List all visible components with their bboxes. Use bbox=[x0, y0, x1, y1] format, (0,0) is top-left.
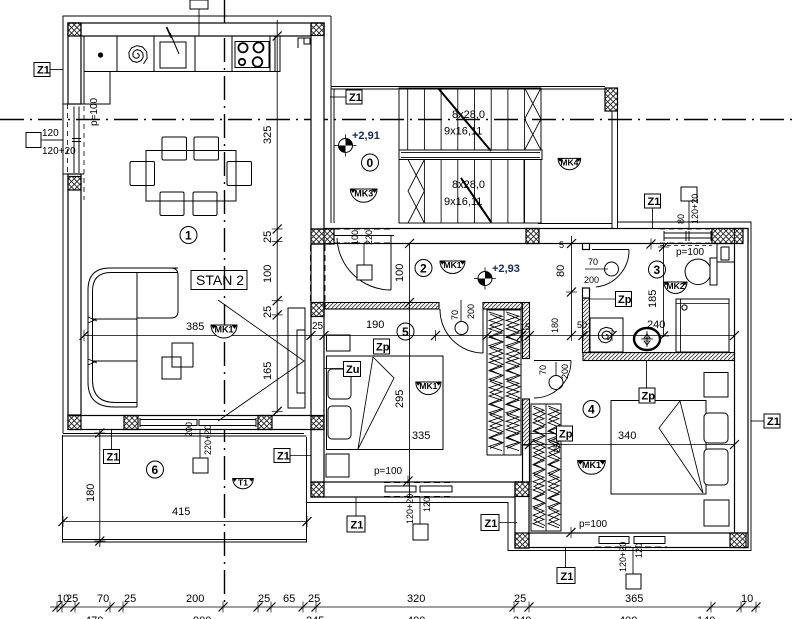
room number 1 bbox=[180, 227, 197, 244]
nightstand room5 top bbox=[327, 335, 351, 351]
toilet bbox=[685, 259, 711, 285]
wall left exterior lower bbox=[68, 174, 81, 415]
svg-text:0: 0 bbox=[367, 156, 374, 170]
armchair squares bbox=[162, 357, 181, 379]
svg-text:Z1: Z1 bbox=[37, 65, 50, 77]
svg-text:Zp: Zp bbox=[618, 294, 632, 306]
kitchen stove bbox=[235, 42, 269, 68]
room number 0 bbox=[362, 154, 379, 171]
stair treads upper flight bbox=[408, 88, 508, 150]
Zp label room4 top bbox=[639, 361, 655, 403]
svg-text:100: 100 bbox=[262, 265, 274, 283]
axis horizontal A bbox=[0, 119, 793, 121]
svg-text:180: 180 bbox=[550, 318, 560, 333]
bathroom west partition upper stub bbox=[583, 244, 590, 250]
svg-text:MK1: MK1 bbox=[444, 260, 462, 270]
Z1 label terrace top bbox=[104, 430, 120, 464]
wall top of left building bbox=[68, 23, 324, 36]
dim terrace 180 vertical bbox=[99, 430, 101, 547]
svg-text:p=100: p=100 bbox=[374, 466, 403, 477]
wardrobe room5 bbox=[487, 310, 521, 455]
svg-text:6: 6 bbox=[152, 463, 159, 477]
stair up-line lower flight bbox=[461, 178, 491, 222]
svg-text:335: 335 bbox=[412, 430, 430, 442]
svg-text:180: 180 bbox=[85, 484, 97, 502]
pier hatch: left bldg SE corner bbox=[311, 416, 324, 430]
svg-text:25: 25 bbox=[514, 593, 526, 605]
svg-text:9x16,11: 9x16,11 bbox=[444, 126, 482, 138]
Z1 label right of left bldg bbox=[330, 90, 362, 104]
bathroom window (top wall) bbox=[660, 229, 712, 246]
partition room5/room4 upper (hatched) bbox=[523, 303, 530, 359]
svg-text:200: 200 bbox=[466, 304, 476, 319]
svg-text:2: 2 bbox=[420, 262, 427, 276]
Zp label room5 bbox=[374, 339, 390, 354]
svg-text:80: 80 bbox=[555, 265, 567, 277]
wall bottom of room 5 bbox=[311, 482, 529, 497]
dim room4 340 horizontal y=444.5 bbox=[523, 444, 735, 446]
door mark bath: circle + text bbox=[605, 262, 619, 276]
door mark room4: circle + rotated text bbox=[549, 376, 563, 390]
corner pier hatch: left bldg NW bbox=[68, 23, 81, 36]
dim bath 185 vertical x=663.5 bbox=[663, 244, 665, 337]
Zp label room4 left bbox=[530, 426, 573, 441]
level mark +2,91 bbox=[335, 135, 357, 157]
svg-text:MK4: MK4 bbox=[560, 157, 578, 167]
MK3 symbol bbox=[350, 189, 377, 203]
room number 3 bbox=[649, 261, 666, 278]
svg-text:385: 385 bbox=[186, 321, 204, 333]
svg-text:140: 140 bbox=[697, 615, 715, 619]
partition room5/room4 lower (hatched) bbox=[523, 399, 530, 445]
svg-text:+2,91: +2,91 bbox=[352, 130, 380, 142]
pier hatch: bottom wall right of door bbox=[258, 416, 272, 430]
svg-text:25: 25 bbox=[124, 593, 136, 605]
door hall to bathroom: leaf and swing bbox=[592, 250, 629, 288]
duvet fold room5 bbox=[358, 357, 394, 449]
svg-text:70: 70 bbox=[97, 593, 109, 605]
svg-text:15: 15 bbox=[520, 322, 530, 332]
svg-text:365: 365 bbox=[625, 593, 643, 605]
svg-text:245: 245 bbox=[306, 615, 324, 619]
dim hall 100 vertical x=409.5 bbox=[409, 244, 411, 498]
kitchen cutting board bbox=[160, 42, 186, 68]
Zp label bathroom bbox=[590, 292, 632, 307]
dim terrace 415 horizontal bbox=[63, 521, 307, 523]
bathroom south partition (hatched) bbox=[583, 353, 735, 361]
svg-text:Z1: Z1 bbox=[648, 196, 661, 208]
sofa outline bbox=[88, 268, 178, 407]
TV sideboard bbox=[288, 308, 305, 408]
MK1 symbol hall bbox=[440, 260, 465, 274]
svg-text:165: 165 bbox=[262, 362, 274, 380]
svg-text:Zp: Zp bbox=[559, 429, 573, 441]
T1 symbol terrace bbox=[233, 478, 254, 489]
bathroom west partition hatched bbox=[583, 298, 590, 353]
svg-text:200: 200 bbox=[184, 422, 194, 437]
stair rail column lower right bbox=[524, 160, 541, 224]
svg-text:p=100: p=100 bbox=[89, 97, 100, 126]
terrace sliding door (bottom wall left bldg) bbox=[138, 416, 258, 430]
top edge leader box bbox=[190, 0, 208, 9]
svg-text:Zu: Zu bbox=[346, 364, 359, 376]
svg-text:Z1: Z1 bbox=[107, 452, 120, 464]
svg-text:Z1: Z1 bbox=[277, 451, 290, 463]
axis vertical B bbox=[224, 0, 226, 608]
pier hatch: wall D at hall south bbox=[311, 303, 324, 317]
stair mid landing bar bbox=[399, 150, 542, 160]
svg-text:5: 5 bbox=[559, 240, 564, 250]
dining chairs bbox=[162, 137, 187, 160]
svg-text:120+20: 120+20 bbox=[618, 542, 628, 572]
svg-text:4: 4 bbox=[588, 403, 595, 417]
svg-text:Z1: Z1 bbox=[485, 518, 498, 530]
nightstand room4 bottom bbox=[704, 500, 729, 526]
svg-text:120: 120 bbox=[422, 497, 432, 512]
stair up-line upper flight bbox=[438, 88, 491, 151]
entry door leaf and swing bbox=[337, 236, 391, 290]
window mark square left bbox=[26, 133, 41, 148]
svg-text:5: 5 bbox=[402, 325, 409, 339]
kitchen corner mark bbox=[298, 38, 310, 48]
Z1 label below room4 bbox=[557, 548, 575, 584]
pier hatch: top wall mid (x526) bbox=[526, 229, 539, 244]
kitchen counter top run bbox=[84, 36, 280, 72]
svg-text:Z1: Z1 bbox=[767, 416, 780, 428]
svg-text:25: 25 bbox=[262, 231, 274, 243]
dining table bbox=[146, 151, 236, 202]
duvet fold room4 bbox=[659, 401, 703, 493]
wall bottom of room 4 bbox=[529, 533, 748, 548]
pier hatch: stair pillar bbox=[605, 88, 618, 111]
pier hatch: SE corner of building bbox=[730, 533, 746, 548]
svg-text:Zp: Zp bbox=[376, 342, 390, 354]
kitchen sink spiral bbox=[129, 46, 147, 64]
svg-text:Z1: Z1 bbox=[561, 571, 574, 583]
svg-text:8x28,0: 8x28,0 bbox=[452, 179, 485, 191]
pier hatch: left bldg SW bbox=[68, 416, 81, 430]
svg-text:320: 320 bbox=[407, 593, 425, 605]
pier hatch: top wall NE corner bbox=[712, 229, 743, 244]
svg-text:Z1: Z1 bbox=[349, 92, 362, 104]
svg-text:120+20: 120+20 bbox=[690, 194, 700, 224]
svg-text:240: 240 bbox=[513, 615, 531, 619]
svg-text:3: 3 bbox=[654, 263, 661, 277]
wall left exterior upper bbox=[68, 23, 81, 104]
svg-text:10: 10 bbox=[741, 593, 753, 605]
MK2 symbol bath bbox=[664, 281, 687, 294]
stair treads lower flight bbox=[424, 160, 524, 224]
svg-text:120: 120 bbox=[634, 543, 644, 558]
wardrobe room4 bbox=[531, 404, 561, 531]
entry door opening (dashed) bbox=[334, 229, 394, 243]
svg-text:9x16,11: 9x16,11 bbox=[444, 196, 482, 208]
svg-text:25: 25 bbox=[258, 593, 270, 605]
Z1 label far right bbox=[751, 414, 780, 428]
room number 2 bbox=[415, 260, 432, 277]
wall stub between room5 and room4 bottoms bbox=[515, 482, 529, 548]
MK4 symbol bbox=[558, 157, 581, 169]
Z1 label top right bbox=[645, 194, 661, 229]
pier hatch: x515 wall bottom bbox=[515, 533, 529, 548]
svg-text:MK3: MK3 bbox=[354, 189, 373, 199]
svg-text:8x28,0: 8x28,0 bbox=[452, 109, 485, 121]
terrace outline bbox=[63, 435, 308, 542]
window left wall (120+20) bbox=[63, 104, 84, 200]
wall right of left building lower bbox=[311, 430, 324, 483]
pier hatch: left wall at window bbox=[68, 177, 81, 191]
building outline thin, left block bbox=[63, 16, 331, 434]
svg-text:MK1: MK1 bbox=[582, 460, 601, 470]
washing machine bbox=[590, 318, 623, 352]
svg-text:MK2: MK2 bbox=[667, 281, 685, 291]
svg-text:65: 65 bbox=[283, 593, 295, 605]
entry door mark square bbox=[357, 265, 372, 280]
svg-text:25: 25 bbox=[262, 306, 274, 318]
door to room4: leaf and swing bbox=[534, 361, 571, 399]
stairwell east wall bbox=[612, 111, 618, 229]
svg-text:415: 415 bbox=[172, 506, 190, 518]
svg-text:220: 220 bbox=[364, 230, 374, 245]
pier hatch: wall D room5 SW bbox=[311, 482, 324, 497]
wall below stairs / top wall of right wing bbox=[324, 229, 748, 244]
stair rail column upper right bbox=[525, 88, 541, 150]
svg-text:190: 190 bbox=[366, 319, 384, 331]
svg-text:p=100: p=100 bbox=[579, 519, 608, 530]
window mark square bath bbox=[681, 187, 697, 201]
Zu label room5 bbox=[324, 362, 361, 377]
room4 south window bbox=[595, 533, 667, 547]
svg-text:25: 25 bbox=[66, 593, 78, 605]
dim line A across plan y=335.5 bbox=[84, 335, 735, 337]
svg-text:340: 340 bbox=[618, 430, 636, 442]
svg-text:25: 25 bbox=[312, 321, 324, 332]
svg-text:Z1: Z1 bbox=[351, 520, 364, 532]
window mark square room5 bbox=[413, 524, 428, 540]
staircase box bbox=[399, 88, 541, 223]
room number 5 bbox=[397, 323, 414, 340]
svg-text:50: 50 bbox=[577, 320, 587, 330]
svg-text:70: 70 bbox=[588, 257, 598, 267]
MK1 symbol room4 bbox=[578, 460, 606, 474]
svg-text:MK1: MK1 bbox=[215, 325, 234, 335]
svg-text:400: 400 bbox=[619, 615, 637, 619]
svg-text:470: 470 bbox=[85, 615, 103, 619]
STAN 2 box bbox=[191, 271, 247, 290]
svg-text:240: 240 bbox=[647, 319, 665, 331]
pier hatch: bottom wall mid bbox=[124, 416, 138, 430]
wall right exterior of right wing bbox=[735, 229, 749, 548]
svg-text:200: 200 bbox=[560, 364, 570, 379]
svg-text:100: 100 bbox=[350, 230, 360, 245]
kitchen dot burner bbox=[98, 52, 103, 57]
svg-text:p=100: p=100 bbox=[676, 247, 705, 258]
stair rail column lower left bbox=[408, 160, 424, 224]
svg-text:185: 185 bbox=[647, 290, 659, 308]
bottom dimension chain bbox=[50, 606, 760, 608]
svg-text:Zp: Zp bbox=[642, 391, 656, 403]
Z1 label left wall bbox=[34, 63, 63, 77]
svg-text:MK1: MK1 bbox=[419, 381, 437, 391]
svg-text:295: 295 bbox=[394, 390, 406, 408]
partition room5/room4 plain lower bbox=[523, 445, 530, 482]
dim 5/80 vertical x=571.5 bbox=[571, 236, 573, 336]
partition below hall, right piece (hatched) bbox=[483, 303, 522, 310]
building outline thin, right block bbox=[307, 222, 752, 551]
svg-text:120+20: 120+20 bbox=[405, 494, 415, 524]
door hall to room5: swing bbox=[440, 309, 483, 353]
svg-text:80: 80 bbox=[676, 214, 686, 224]
svg-text:200: 200 bbox=[186, 593, 204, 605]
bed room4 bbox=[611, 401, 706, 495]
nightstand room5 bottom bbox=[326, 454, 349, 477]
svg-text:120: 120 bbox=[42, 128, 59, 139]
wall right of left building mid bbox=[311, 244, 324, 416]
stair hall outline bbox=[331, 87, 612, 224]
room number 6 bbox=[147, 461, 164, 478]
window mark square room4 bbox=[626, 574, 641, 589]
svg-text:120+20: 120+20 bbox=[42, 146, 76, 157]
washbasin bbox=[634, 328, 660, 350]
svg-text:325: 325 bbox=[262, 126, 274, 144]
MK1 symbol living bbox=[211, 325, 237, 339]
svg-text:STAN 2: STAN 2 bbox=[196, 272, 244, 288]
bed room5 bbox=[327, 356, 444, 450]
shower bbox=[676, 299, 729, 352]
svg-text:200: 200 bbox=[584, 275, 599, 285]
svg-text:70: 70 bbox=[450, 310, 460, 320]
svg-text:25: 25 bbox=[308, 593, 320, 605]
bathroom west partition solid bbox=[583, 288, 590, 298]
svg-text:100: 100 bbox=[394, 264, 406, 282]
corner pier hatch: left bldg NE bbox=[311, 23, 324, 36]
passage living-hall (dashed opening) bbox=[311, 245, 326, 301]
kitchen counter left leg bbox=[84, 72, 110, 105]
level mark +2,93 bbox=[474, 268, 496, 290]
TV viewing wedge bbox=[218, 300, 304, 421]
pier hatch: wall D at hall north bbox=[311, 229, 334, 244]
nightstand room4 top bbox=[704, 373, 728, 398]
Z1 label below room5 left bbox=[347, 497, 365, 532]
svg-text:1: 1 bbox=[185, 229, 192, 243]
dim chain vertical left interior (325/25/100/25/165) bbox=[276, 20, 278, 413]
stairwell west boundary bbox=[331, 87, 334, 224]
partition below hall, left piece (hatched) bbox=[325, 303, 439, 310]
door mark room5: circle + rotated text bbox=[455, 322, 468, 335]
sofa chaise right cap bbox=[137, 268, 178, 318]
svg-text:220+20: 220+20 bbox=[203, 425, 213, 455]
MK1 symbol bed room5 bbox=[416, 381, 441, 395]
svg-text:70: 70 bbox=[538, 365, 548, 375]
sofa front edge and dividers bbox=[93, 273, 138, 407]
pier hatch: room5 bottom wall east bbox=[515, 482, 529, 497]
Z1 label left of room5 bbox=[274, 449, 311, 463]
svg-text:900: 900 bbox=[193, 615, 211, 619]
svg-text:T1: T1 bbox=[238, 478, 248, 488]
svg-text:+2,93: +2,93 bbox=[492, 263, 520, 275]
Z1 label below room5 right bbox=[481, 515, 517, 531]
window mark square terrace door bbox=[193, 458, 208, 473]
room5 south window bbox=[384, 483, 453, 497]
room number 4 bbox=[583, 401, 600, 418]
bathroom shaft top-right bbox=[717, 244, 735, 263]
svg-text:400: 400 bbox=[407, 615, 425, 619]
wall right of left building upper bbox=[311, 23, 324, 229]
wall bottom of left building bbox=[68, 416, 324, 430]
